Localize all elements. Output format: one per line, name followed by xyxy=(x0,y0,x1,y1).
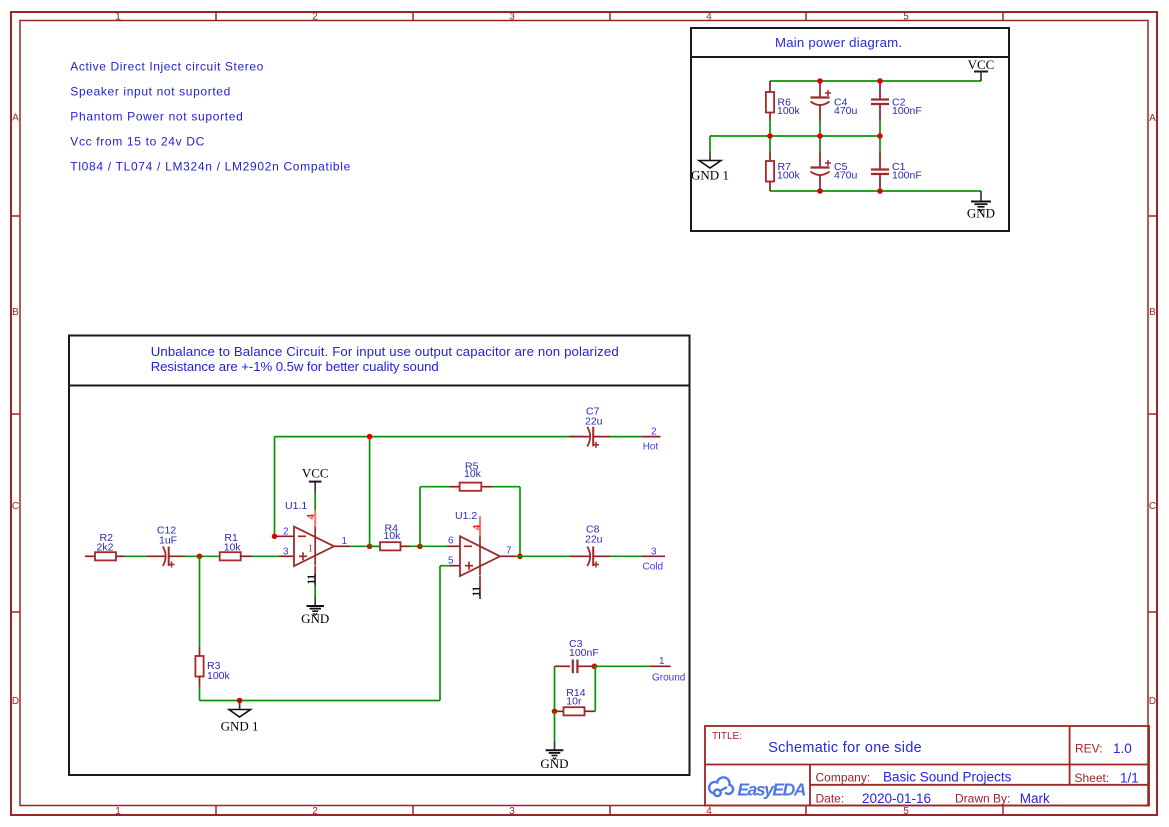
svg-text:470u: 470u xyxy=(834,170,858,182)
svg-text:2: 2 xyxy=(312,806,318,817)
svg-text:REV:: REV: xyxy=(1075,742,1103,756)
svg-text:10k: 10k xyxy=(464,468,482,480)
svg-text:C: C xyxy=(12,501,19,512)
svg-text:GND 1: GND 1 xyxy=(691,168,729,183)
wire pin2 xyxy=(272,437,294,539)
feedback loop wires R5 xyxy=(420,487,520,557)
wire xyxy=(252,555,279,557)
svg-text:3: 3 xyxy=(651,546,657,557)
port 3 Cold xyxy=(642,546,666,572)
svg-text:D: D xyxy=(1149,696,1156,707)
resistor R1 xyxy=(220,532,252,560)
svg-text:2k2: 2k2 xyxy=(97,541,114,553)
svg-text:Date:: Date: xyxy=(816,792,845,806)
op-amp U1.2 xyxy=(455,510,500,576)
svg-text:2: 2 xyxy=(283,527,289,538)
svg-text:4: 4 xyxy=(305,514,317,520)
svg-text:Schematic for one side: Schematic for one side xyxy=(768,740,922,756)
svg-text:1: 1 xyxy=(115,12,121,23)
ground GND (circuit bottom) xyxy=(540,741,568,771)
svg-text:1/1: 1/1 xyxy=(1120,770,1139,785)
pin 4 VCC stub U1.1 xyxy=(302,466,329,566)
annotation notes xyxy=(70,60,350,174)
svg-text:11: 11 xyxy=(306,574,318,584)
svg-text:B: B xyxy=(12,307,19,318)
svg-text:Unbalance to Balance Circuit.: Unbalance to Balance Circuit. For input … xyxy=(151,344,619,359)
svg-text:100k: 100k xyxy=(777,170,801,182)
EasyEDA logo xyxy=(709,777,806,799)
capacitor C2 xyxy=(871,81,922,136)
resistor R5 xyxy=(460,460,482,490)
pin 11 stub U1.2 xyxy=(470,576,482,599)
port 2 Hot xyxy=(642,427,661,453)
svg-text:Mark: Mark xyxy=(1020,791,1050,806)
svg-text:6: 6 xyxy=(448,536,454,547)
svg-text:5: 5 xyxy=(448,556,454,567)
wire pin6 xyxy=(420,545,447,547)
svg-text:A: A xyxy=(12,113,19,124)
wire xyxy=(516,555,570,557)
svg-text:100nF: 100nF xyxy=(892,105,922,117)
svg-text:10k: 10k xyxy=(384,530,402,542)
capacitor C8 xyxy=(570,524,611,568)
junction node xyxy=(592,664,598,670)
svg-text:U1.2: U1.2 xyxy=(455,510,477,522)
bottom rail wire xyxy=(200,700,441,702)
capacitor C3 xyxy=(555,638,599,673)
wire bottom rail xyxy=(770,190,981,192)
svg-text:B: B xyxy=(1149,307,1156,318)
wire VCC top rail xyxy=(770,80,981,82)
wire xyxy=(610,436,642,438)
svg-text:4: 4 xyxy=(471,524,483,530)
junction node xyxy=(237,698,243,704)
svg-text:EasyEDA: EasyEDA xyxy=(737,780,806,800)
svg-text:Phantom Power not suported: Phantom Power not suported xyxy=(70,110,243,124)
wire R14 right riser xyxy=(594,666,596,711)
svg-text:1: 1 xyxy=(308,544,313,555)
svg-text:Drawn By:: Drawn By: xyxy=(955,792,1010,806)
svg-text:2: 2 xyxy=(312,12,318,23)
svg-text:Sheet:: Sheet: xyxy=(1075,771,1110,785)
svg-text:Cold: Cold xyxy=(643,561,664,572)
resistor R3 xyxy=(195,556,230,700)
svg-text:100k: 100k xyxy=(777,105,801,117)
svg-text:100nF: 100nF xyxy=(569,647,599,659)
svg-text:TITLE:: TITLE: xyxy=(712,731,742,742)
capacitor C1 xyxy=(871,136,922,191)
pin 11 GND stub U1.1 xyxy=(306,566,318,606)
svg-text:Main power diagram.: Main power diagram. xyxy=(775,35,902,50)
svg-text:5: 5 xyxy=(903,12,909,23)
svg-text:Speaker input not suported: Speaker input not suported xyxy=(70,85,230,99)
svg-text:22u: 22u xyxy=(585,415,603,427)
resistor R14 xyxy=(555,687,596,715)
svg-text:2: 2 xyxy=(651,427,657,438)
op-amp U1.1 xyxy=(285,500,334,566)
circuit box title xyxy=(151,344,619,374)
resistor R4 xyxy=(370,522,420,550)
svg-text:Ground: Ground xyxy=(652,673,685,684)
wire C3 left drop xyxy=(554,666,556,711)
capacitor C7 xyxy=(570,405,611,448)
svg-text:3: 3 xyxy=(509,12,515,23)
ground GND 1 (power box) xyxy=(691,152,729,183)
wire xyxy=(610,555,642,557)
svg-text:C: C xyxy=(1149,501,1156,512)
svg-text:4: 4 xyxy=(706,12,712,23)
wire pin5 xyxy=(440,566,460,701)
resistor R7 xyxy=(766,136,801,191)
svg-text:GND: GND xyxy=(540,756,568,771)
svg-text:U1.1: U1.1 xyxy=(285,500,307,512)
svg-text:VCC: VCC xyxy=(968,57,995,72)
ground GND (U1.1) xyxy=(301,606,329,626)
junction node xyxy=(552,709,558,715)
svg-text:A: A xyxy=(1149,113,1156,124)
pin 1 output wire xyxy=(334,544,380,550)
VCC net symbol xyxy=(968,57,995,81)
svg-text:Hot: Hot xyxy=(643,441,659,452)
svg-text:10r: 10r xyxy=(566,695,582,707)
pin 7 output xyxy=(500,546,523,560)
svg-text:Active Direct Inject circuit S: Active Direct Inject circuit Stereo xyxy=(70,60,263,74)
wire xyxy=(594,665,650,667)
resistor R2 xyxy=(85,532,125,560)
wire xyxy=(125,555,148,557)
svg-text:Resistance are +-1% 0.5w for b: Resistance are +-1% 0.5w for better cual… xyxy=(151,359,439,374)
wire mid rail xyxy=(710,136,880,152)
title block grid xyxy=(705,726,1149,806)
svg-text:VCC: VCC xyxy=(302,466,329,481)
resistor R6 xyxy=(766,81,801,136)
svg-text:Vcc from 15 to 24v DC: Vcc from 15 to 24v DC xyxy=(70,135,204,149)
svg-text:1uF: 1uF xyxy=(159,535,177,547)
circuit box xyxy=(69,336,690,776)
svg-text:11: 11 xyxy=(470,586,482,596)
ground GND (power box) xyxy=(967,191,995,221)
capacitor C12 xyxy=(147,524,185,567)
svg-text:GND: GND xyxy=(967,206,995,221)
pin 4 stub U1.2 xyxy=(471,516,483,575)
svg-text:3: 3 xyxy=(283,547,289,558)
wire xyxy=(185,555,220,557)
svg-text:100nF: 100nF xyxy=(892,170,922,182)
power diagram box xyxy=(691,28,1009,231)
svg-text:1: 1 xyxy=(342,536,348,547)
svg-text:10k: 10k xyxy=(224,541,242,553)
junction node xyxy=(417,544,423,550)
svg-text:D: D xyxy=(12,696,19,707)
capacitor C5 xyxy=(811,136,858,191)
svg-text:7: 7 xyxy=(506,546,512,557)
svg-text:3: 3 xyxy=(509,806,515,817)
svg-text:1: 1 xyxy=(115,806,121,817)
svg-text:GND: GND xyxy=(301,611,329,626)
svg-text:5: 5 xyxy=(903,806,909,817)
svg-text:Tl084 / TL074 / LM324n / LM290: Tl084 / TL074 / LM324n / LM2902n Compati… xyxy=(70,160,350,174)
ground GND 1 (circuit) xyxy=(221,701,259,734)
wire GND drop xyxy=(554,711,556,740)
svg-text:Basic Sound Projects: Basic Sound Projects xyxy=(883,770,1012,785)
svg-text:4: 4 xyxy=(706,806,712,817)
svg-text:100k: 100k xyxy=(207,670,231,682)
wire pin3 lead xyxy=(279,555,294,557)
svg-text:Company:: Company: xyxy=(816,771,871,785)
capacitor C4 xyxy=(811,81,858,136)
junction dots (power box) xyxy=(767,78,883,194)
svg-text:470u: 470u xyxy=(834,105,858,117)
svg-text:22u: 22u xyxy=(585,534,603,546)
svg-text:1: 1 xyxy=(659,656,665,667)
wire to Hot rail xyxy=(275,434,584,546)
svg-text:1.0: 1.0 xyxy=(1113,741,1132,756)
svg-text:GND 1: GND 1 xyxy=(221,719,259,734)
title block texts xyxy=(712,731,1139,806)
port 1 Ground xyxy=(650,656,685,684)
svg-text:2020-01-16: 2020-01-16 xyxy=(862,791,931,806)
junction node xyxy=(197,554,203,560)
